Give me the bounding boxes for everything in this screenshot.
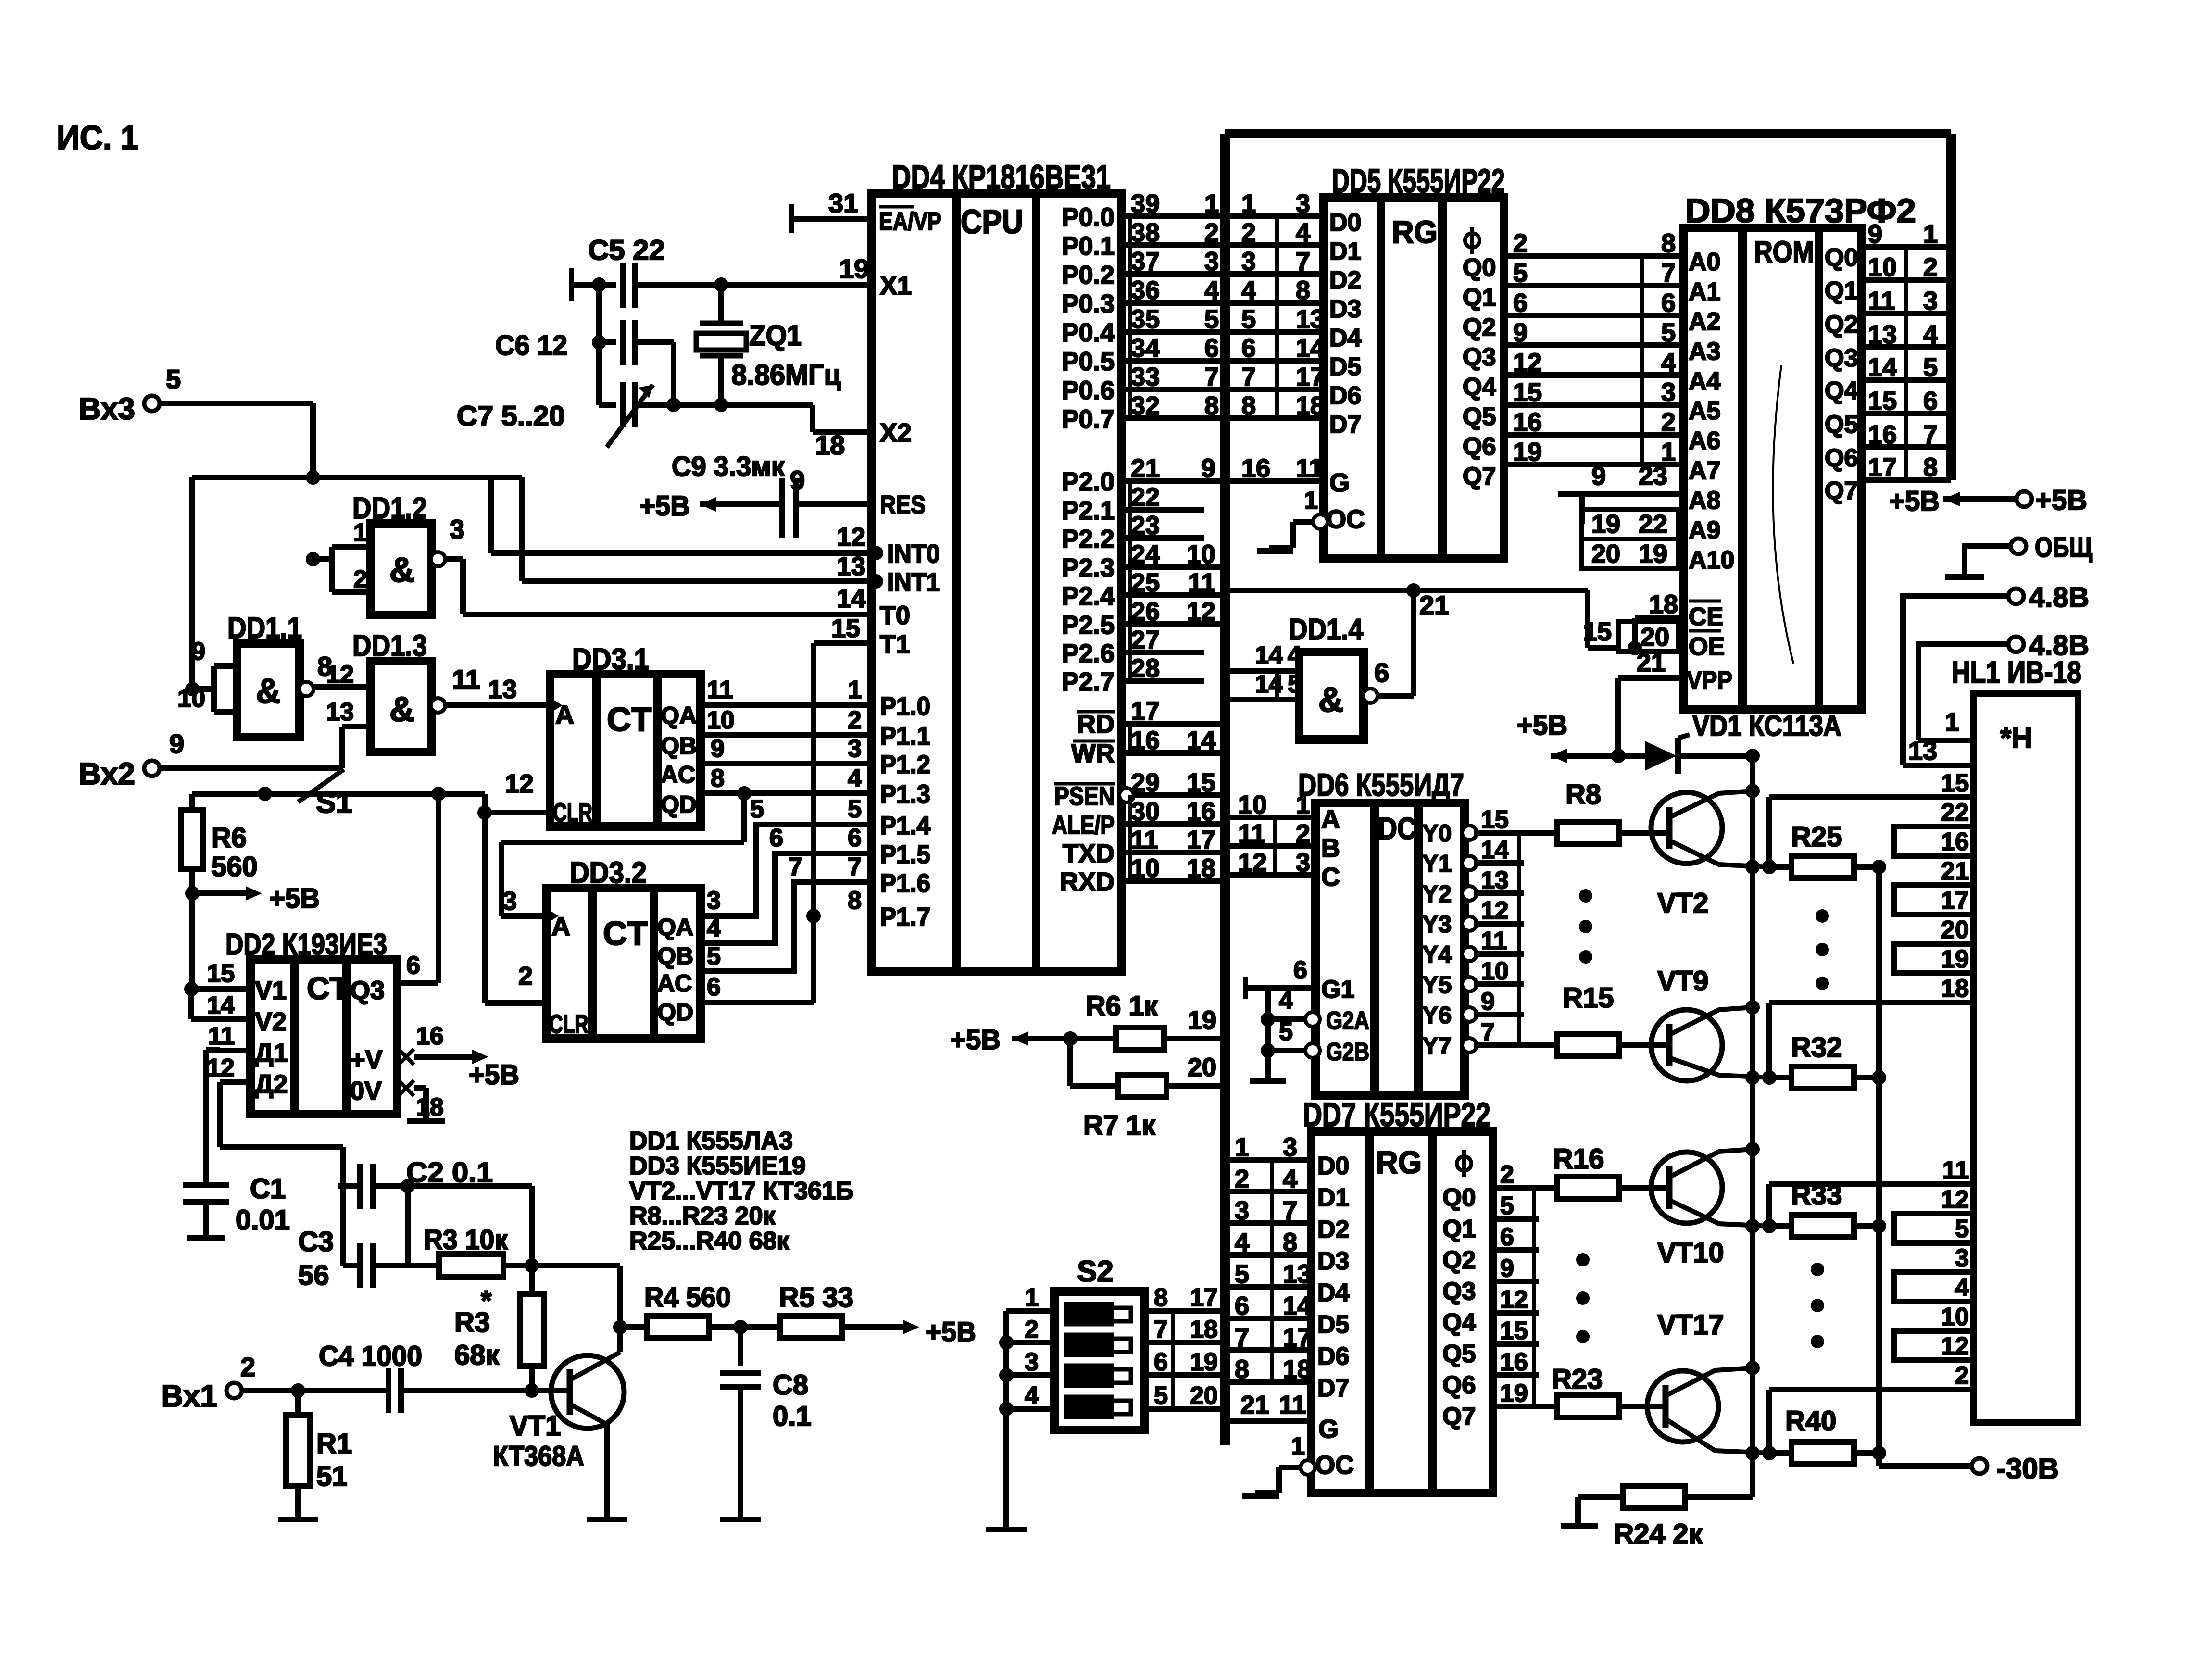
- svg-text:15: 15: [1868, 387, 1897, 415]
- svg-text:+5B: +5B: [469, 1059, 519, 1091]
- svg-text:7: 7: [789, 853, 802, 881]
- svg-text:36: 36: [1131, 276, 1160, 305]
- svg-text:C2 0.1: C2 0.1: [406, 1157, 493, 1188]
- svg-text:23: 23: [1639, 462, 1667, 490]
- svg-text:13: 13: [1481, 866, 1509, 894]
- svg-text:21: 21: [1131, 454, 1160, 483]
- svg-text:22: 22: [1639, 510, 1667, 539]
- svg-text:+5В: +5В: [2035, 485, 2087, 516]
- svg-text:4: 4: [707, 915, 721, 942]
- svg-text:P2.2: P2.2: [1062, 525, 1115, 553]
- svg-text:Q4: Q4: [1463, 373, 1496, 401]
- svg-text:QB: QB: [657, 942, 693, 969]
- svg-text:+5B: +5B: [926, 1316, 976, 1348]
- svg-text:0V: 0V: [350, 1077, 382, 1105]
- svg-text:2: 2: [1204, 218, 1219, 247]
- svg-text:Y5: Y5: [1422, 971, 1452, 998]
- svg-text:4: 4: [1661, 348, 1676, 377]
- svg-text:Y1: Y1: [1422, 850, 1452, 877]
- svg-text:17: 17: [1941, 887, 1969, 915]
- svg-text:CT: CT: [603, 915, 648, 952]
- svg-text:D0: D0: [1329, 209, 1361, 237]
- svg-text:INT0: INT0: [887, 539, 940, 568]
- svg-text:2: 2: [1513, 229, 1528, 258]
- svg-text:Y0: Y0: [1422, 820, 1452, 847]
- svg-text:21: 21: [1419, 590, 1449, 620]
- svg-text:18: 18: [1187, 854, 1215, 883]
- svg-text:ЕА/VР: ЕА/VР: [879, 208, 941, 236]
- svg-text:R7 1к: R7 1к: [1083, 1110, 1156, 1141]
- svg-text:C8: C8: [773, 1369, 808, 1401]
- svg-text:17: 17: [1187, 826, 1215, 854]
- svg-text:21: 21: [1637, 648, 1666, 677]
- svg-text:Q7: Q7: [1442, 1403, 1476, 1430]
- svg-text:18: 18: [416, 1093, 444, 1121]
- svg-text:1: 1: [1304, 487, 1318, 514]
- svg-text:QD: QD: [661, 791, 697, 818]
- svg-text:P1.0: P1.0: [880, 692, 930, 721]
- svg-text:&: &: [256, 672, 281, 711]
- svg-text:10: 10: [177, 685, 205, 713]
- svg-text:Q6: Q6: [1442, 1371, 1476, 1399]
- svg-text:5: 5: [1955, 1215, 1969, 1243]
- svg-text:11: 11: [208, 1022, 235, 1050]
- svg-text:DD1.3: DD1.3: [352, 629, 427, 663]
- svg-text:СЕ: СЕ: [1689, 603, 1723, 631]
- svg-text:18: 18: [1941, 975, 1969, 1003]
- svg-text:R8...R23 20к: R8...R23 20к: [629, 1202, 776, 1230]
- svg-text:G2В: G2В: [1326, 1038, 1369, 1066]
- svg-text:12: 12: [326, 661, 354, 689]
- svg-text:VT1: VT1: [510, 1410, 561, 1442]
- svg-text:10: 10: [1941, 1303, 1969, 1331]
- svg-text:3: 3: [1235, 1196, 1249, 1225]
- svg-text:A2: A2: [1689, 308, 1720, 336]
- svg-text:15: 15: [1941, 769, 1969, 797]
- svg-text:14: 14: [837, 584, 865, 613]
- svg-text:R15: R15: [1563, 982, 1614, 1014]
- svg-text:2: 2: [848, 706, 862, 734]
- svg-text:12: 12: [1481, 897, 1509, 925]
- svg-text:4: 4: [1288, 641, 1302, 669]
- svg-text:Q5: Q5: [1825, 411, 1858, 439]
- svg-text:8: 8: [1204, 391, 1219, 420]
- svg-text:2: 2: [240, 1352, 255, 1382]
- svg-text:Bx1: Bx1: [161, 1379, 217, 1413]
- svg-text:22: 22: [1131, 483, 1160, 512]
- svg-text:28: 28: [1131, 654, 1160, 683]
- svg-text:P1.7: P1.7: [880, 903, 930, 931]
- svg-text:33: 33: [1131, 363, 1160, 391]
- svg-text:C3: C3: [298, 1226, 334, 1257]
- svg-text:9: 9: [1201, 454, 1215, 483]
- svg-text:R1: R1: [316, 1428, 352, 1459]
- svg-text:6: 6: [707, 973, 721, 1001]
- svg-text:9: 9: [1591, 462, 1606, 490]
- svg-text:19: 19: [1190, 1348, 1218, 1376]
- svg-text:Q2: Q2: [1825, 311, 1858, 339]
- svg-text:15: 15: [1513, 378, 1542, 407]
- svg-text:WR: WR: [1071, 739, 1115, 768]
- svg-text:4: 4: [1025, 1382, 1039, 1410]
- svg-text:6: 6: [1235, 1291, 1249, 1320]
- svg-text:15: 15: [1500, 1317, 1528, 1345]
- svg-text:4: 4: [1235, 1228, 1249, 1257]
- svg-text:4: 4: [1955, 1274, 1969, 1302]
- svg-text:12: 12: [505, 769, 534, 798]
- svg-text:Q6: Q6: [1825, 444, 1858, 472]
- svg-text:TXD: TXD: [1063, 839, 1115, 868]
- svg-text:4: 4: [848, 765, 862, 792]
- svg-text:4.8В: 4.8В: [2029, 582, 2089, 613]
- svg-text:16: 16: [1941, 828, 1969, 856]
- svg-text:D1: D1: [1317, 1184, 1349, 1212]
- svg-text:7: 7: [1296, 247, 1310, 276]
- svg-text:P0.0: P0.0: [1062, 203, 1115, 232]
- svg-text:2: 2: [1661, 408, 1676, 437]
- svg-text:D7: D7: [1317, 1374, 1349, 1402]
- svg-text:3: 3: [707, 887, 721, 915]
- svg-text:C9 3.3мк: C9 3.3мк: [672, 451, 785, 482]
- svg-text:B: B: [1321, 834, 1340, 863]
- svg-text:19: 19: [1188, 1006, 1216, 1035]
- svg-text:68к: 68к: [454, 1340, 500, 1371]
- svg-text:3: 3: [1296, 848, 1310, 877]
- svg-text:Q5: Q5: [1463, 403, 1496, 431]
- svg-text:7: 7: [1481, 1018, 1495, 1046]
- svg-text:20: 20: [1188, 1053, 1216, 1082]
- svg-text:P0.6: P0.6: [1062, 376, 1115, 405]
- svg-text:V1: V1: [255, 976, 287, 1005]
- svg-text:VT2...VT17 КТ361Б: VT2...VT17 КТ361Б: [629, 1177, 853, 1205]
- svg-text:P1.4: P1.4: [880, 811, 930, 840]
- svg-text:4: 4: [1283, 1165, 1297, 1193]
- svg-text:G: G: [1318, 1415, 1339, 1443]
- svg-text:D6: D6: [1317, 1342, 1349, 1370]
- svg-text:11: 11: [452, 664, 480, 694]
- svg-text:D2: D2: [1329, 266, 1361, 294]
- svg-text:1: 1: [848, 676, 862, 704]
- svg-text:P1.3: P1.3: [880, 780, 930, 809]
- svg-text:12: 12: [1238, 848, 1267, 877]
- svg-text:1: 1: [353, 519, 367, 547]
- svg-text:P0.3: P0.3: [1062, 289, 1115, 318]
- svg-text:14: 14: [1481, 836, 1509, 864]
- svg-text:7: 7: [1154, 1316, 1168, 1343]
- svg-text:19: 19: [1500, 1379, 1528, 1407]
- svg-text:23: 23: [1131, 511, 1160, 540]
- svg-text:OC: OC: [1326, 505, 1365, 534]
- svg-text:G: G: [1329, 468, 1350, 497]
- svg-text:D3: D3: [1317, 1247, 1349, 1275]
- svg-text:P1.6: P1.6: [880, 869, 930, 898]
- svg-text:31: 31: [828, 188, 858, 218]
- svg-text:11: 11: [707, 676, 733, 704]
- svg-text:27: 27: [1131, 626, 1160, 654]
- svg-text:DD6 К555ИД7: DD6 К555ИД7: [1298, 767, 1464, 802]
- svg-text:5: 5: [848, 795, 862, 823]
- svg-text:8: 8: [1154, 1284, 1168, 1312]
- svg-text:30: 30: [1131, 797, 1160, 826]
- svg-text:11: 11: [1279, 1391, 1306, 1419]
- svg-text:39: 39: [1131, 189, 1160, 218]
- svg-text:2: 2: [1955, 1362, 1969, 1390]
- svg-text:1: 1: [1945, 708, 1959, 737]
- svg-text:R23: R23: [1552, 1364, 1603, 1395]
- svg-text:6: 6: [769, 824, 783, 852]
- svg-text:1: 1: [1241, 189, 1256, 218]
- svg-text:13: 13: [837, 552, 865, 581]
- svg-text:3: 3: [1923, 287, 1938, 315]
- svg-text:56: 56: [298, 1260, 329, 1291]
- svg-text:C: C: [1321, 863, 1340, 891]
- svg-text:&: &: [389, 551, 414, 589]
- svg-text:8: 8: [1283, 1228, 1297, 1257]
- svg-text:DD1 К555ЛА3: DD1 К555ЛА3: [629, 1127, 793, 1155]
- svg-text:P1.2: P1.2: [880, 750, 930, 779]
- svg-text:Q7: Q7: [1825, 477, 1858, 505]
- svg-text:D7: D7: [1329, 411, 1361, 439]
- svg-text:2: 2: [1500, 1161, 1514, 1189]
- svg-text:3: 3: [502, 887, 517, 915]
- svg-text:14: 14: [1283, 1291, 1312, 1320]
- svg-text:8: 8: [1241, 391, 1256, 420]
- svg-text:ИС. 1: ИС. 1: [57, 119, 138, 156]
- svg-text:DD3.2: DD3.2: [570, 856, 647, 890]
- svg-text:Bx2: Bx2: [79, 756, 135, 791]
- svg-text:RXD: RXD: [1060, 867, 1115, 896]
- svg-text:18: 18: [1190, 1316, 1218, 1343]
- svg-text:RD: RD: [1077, 710, 1115, 739]
- svg-text:ОБЩ: ОБЩ: [2035, 532, 2092, 563]
- svg-text:3: 3: [848, 735, 862, 763]
- svg-text:P2.0: P2.0: [1062, 467, 1115, 496]
- svg-text:2: 2: [1025, 1316, 1039, 1343]
- svg-text:20: 20: [1591, 539, 1620, 568]
- svg-text:*Н: *Н: [2000, 722, 2032, 754]
- svg-text:15: 15: [1187, 768, 1215, 797]
- svg-text:R3 10к: R3 10к: [424, 1224, 508, 1255]
- svg-text:Q0: Q0: [1825, 244, 1858, 272]
- svg-text:&: &: [1318, 681, 1343, 719]
- svg-text:11: 11: [1238, 819, 1265, 848]
- svg-text:&: &: [389, 690, 414, 729]
- svg-text:7: 7: [1241, 363, 1256, 391]
- svg-text:R25: R25: [1791, 821, 1842, 853]
- svg-text:6: 6: [1661, 288, 1676, 317]
- svg-text:13: 13: [326, 698, 354, 726]
- svg-text:38: 38: [1131, 218, 1160, 247]
- svg-text:9: 9: [1513, 318, 1528, 347]
- svg-text:3: 3: [450, 514, 464, 544]
- svg-text:3: 3: [1283, 1133, 1297, 1162]
- svg-text:6: 6: [406, 952, 420, 979]
- svg-text:T1: T1: [880, 630, 910, 659]
- svg-text:+5B: +5B: [1889, 486, 1940, 517]
- svg-text:Q1: Q1: [1825, 277, 1858, 305]
- svg-text:Q5: Q5: [1442, 1340, 1476, 1368]
- svg-text:5: 5: [1923, 353, 1938, 382]
- svg-text:DD7 К555ИР22: DD7 К555ИР22: [1303, 1096, 1490, 1133]
- svg-text:VD1 КС113А: VD1 КС113А: [1692, 710, 1841, 742]
- svg-text:14: 14: [207, 991, 235, 1019]
- svg-text:P0.1: P0.1: [1062, 232, 1115, 261]
- svg-text:VT10: VT10: [1657, 1237, 1724, 1268]
- svg-text:CLR: CLR: [553, 798, 592, 827]
- svg-text:C1: C1: [250, 1173, 286, 1204]
- svg-text:7: 7: [1923, 420, 1938, 449]
- svg-text:5: 5: [1241, 305, 1256, 334]
- svg-text:C6 12: C6 12: [495, 330, 567, 361]
- svg-text:Д1: Д1: [255, 1039, 288, 1067]
- svg-text:D1: D1: [1329, 238, 1361, 265]
- svg-text:5: 5: [1661, 318, 1676, 347]
- svg-text:D0: D0: [1317, 1152, 1349, 1180]
- svg-text:D4: D4: [1317, 1279, 1350, 1307]
- svg-text:VT9: VT9: [1657, 965, 1708, 997]
- svg-text:3: 3: [1204, 247, 1219, 276]
- svg-text:19: 19: [1513, 438, 1542, 466]
- svg-text:1: 1: [1296, 790, 1310, 819]
- svg-text:P0.2: P0.2: [1062, 261, 1115, 289]
- svg-text:7: 7: [1204, 363, 1219, 391]
- svg-text:12: 12: [1513, 348, 1542, 377]
- svg-text:Q3: Q3: [350, 976, 385, 1005]
- svg-text:R4 560: R4 560: [644, 1282, 731, 1313]
- svg-text:11: 11: [1481, 927, 1507, 955]
- svg-text:13: 13: [488, 675, 517, 704]
- svg-text:R40: R40: [1785, 1405, 1836, 1437]
- svg-text:QA: QA: [661, 702, 697, 729]
- svg-text:Q2: Q2: [1442, 1246, 1476, 1274]
- svg-text:12: 12: [207, 1054, 235, 1082]
- svg-text:13: 13: [1283, 1260, 1312, 1289]
- svg-text:*: *: [481, 1285, 492, 1316]
- svg-text:Q0: Q0: [1442, 1184, 1476, 1212]
- svg-text:+5B: +5B: [950, 1024, 1001, 1055]
- svg-text:Q0: Q0: [1463, 254, 1496, 282]
- svg-text:DD2 К193ИЕ3: DD2 К193ИЕ3: [225, 928, 387, 961]
- svg-text:P1.5: P1.5: [880, 840, 930, 869]
- svg-text:5: 5: [1279, 1018, 1293, 1046]
- svg-text:2: 2: [353, 565, 367, 593]
- svg-text:T0: T0: [880, 601, 910, 630]
- svg-text:32: 32: [1131, 391, 1160, 420]
- svg-text:3: 3: [1661, 378, 1676, 407]
- svg-text:RG: RG: [1376, 1144, 1422, 1180]
- svg-text:17: 17: [1868, 453, 1897, 482]
- svg-text:14: 14: [1255, 641, 1283, 669]
- svg-text:R24 2к: R24 2к: [1614, 1518, 1703, 1550]
- svg-text:R16: R16: [1553, 1143, 1604, 1175]
- svg-text:5: 5: [1204, 305, 1219, 334]
- svg-text:Q6: Q6: [1463, 433, 1496, 461]
- svg-text:Q1: Q1: [1442, 1215, 1476, 1243]
- svg-text:D3: D3: [1329, 295, 1361, 323]
- svg-text:4: 4: [1296, 218, 1310, 247]
- svg-text:8: 8: [1235, 1355, 1249, 1384]
- svg-text:10: 10: [1187, 540, 1215, 569]
- svg-text:4: 4: [1204, 276, 1219, 305]
- svg-text:P0.7: P0.7: [1062, 405, 1115, 434]
- svg-text:D4: D4: [1329, 324, 1362, 352]
- svg-text:Q1: Q1: [1463, 284, 1496, 312]
- svg-text:19: 19: [1639, 539, 1667, 568]
- svg-text:4.8В: 4.8В: [2029, 630, 2089, 661]
- svg-text:0.1: 0.1: [773, 1401, 812, 1432]
- svg-text:26: 26: [1131, 597, 1160, 626]
- svg-text:8.86МГц: 8.86МГц: [731, 359, 841, 391]
- svg-text:1: 1: [1291, 1432, 1305, 1460]
- svg-text:Q2: Q2: [1463, 313, 1496, 341]
- svg-text:P0.4: P0.4: [1062, 318, 1115, 347]
- svg-text:P2.7: P2.7: [1062, 667, 1115, 696]
- svg-text:11: 11: [1868, 287, 1895, 315]
- svg-text:S2: S2: [1077, 1255, 1114, 1288]
- svg-text:34: 34: [1131, 334, 1160, 363]
- svg-text:DD4 КР1816ВЕ31: DD4 КР1816ВЕ31: [892, 158, 1111, 196]
- svg-text:5: 5: [1500, 1192, 1514, 1220]
- svg-text:16: 16: [1131, 726, 1160, 755]
- svg-text:17: 17: [1190, 1284, 1218, 1312]
- svg-text:Y7: Y7: [1422, 1032, 1452, 1059]
- svg-text:2: 2: [1235, 1165, 1249, 1193]
- svg-text:Y2: Y2: [1422, 880, 1452, 907]
- svg-text:8: 8: [711, 765, 725, 792]
- svg-text:ALE/P: ALE/P: [1052, 811, 1115, 840]
- svg-text:CT: CT: [607, 701, 651, 738]
- svg-text:5: 5: [1513, 259, 1528, 288]
- svg-text:12: 12: [1941, 1332, 1969, 1360]
- svg-text:6: 6: [1154, 1348, 1168, 1376]
- svg-text:11: 11: [1131, 826, 1158, 854]
- svg-text:Q4: Q4: [1825, 377, 1858, 405]
- svg-text:4: 4: [1279, 987, 1293, 1015]
- svg-text:1: 1: [1235, 1133, 1249, 1162]
- svg-text:18: 18: [1283, 1355, 1312, 1384]
- svg-text:V2: V2: [255, 1007, 287, 1036]
- svg-text:16: 16: [1868, 420, 1897, 449]
- svg-text:8: 8: [1923, 453, 1938, 482]
- svg-text:DC: DC: [1378, 811, 1416, 846]
- svg-text:PSEN: PSEN: [1054, 782, 1115, 811]
- svg-text:0.01: 0.01: [236, 1204, 290, 1236]
- svg-text:Q3: Q3: [1825, 344, 1858, 372]
- svg-text:6: 6: [1204, 334, 1219, 363]
- svg-text:CT: CT: [307, 970, 349, 1006]
- svg-text:QB: QB: [661, 732, 697, 759]
- svg-text:D6: D6: [1329, 382, 1361, 410]
- svg-text:8: 8: [848, 887, 862, 915]
- svg-text:VРР: VРР: [1687, 666, 1732, 694]
- svg-text:5: 5: [750, 795, 764, 823]
- svg-text:51: 51: [316, 1461, 348, 1492]
- svg-text:6: 6: [1241, 334, 1256, 363]
- svg-text:560: 560: [211, 851, 258, 882]
- svg-text:12: 12: [1941, 1186, 1969, 1214]
- svg-text:20: 20: [1941, 916, 1969, 944]
- svg-text:Q3: Q3: [1463, 343, 1496, 371]
- svg-text:22: 22: [1941, 799, 1969, 827]
- svg-text:8: 8: [1661, 229, 1676, 258]
- svg-text:5: 5: [707, 942, 721, 970]
- svg-text:11: 11: [1942, 1156, 1969, 1184]
- svg-text:CLR: CLR: [549, 1010, 589, 1039]
- svg-text:P1.1: P1.1: [880, 722, 930, 751]
- svg-text:10: 10: [1238, 790, 1267, 819]
- svg-text:R32: R32: [1791, 1032, 1842, 1063]
- svg-text:14: 14: [1187, 726, 1215, 755]
